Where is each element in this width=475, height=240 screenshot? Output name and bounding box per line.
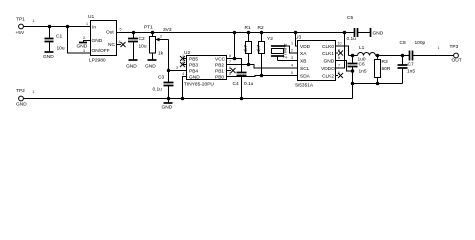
svg-text:PB2: PB2 bbox=[215, 62, 224, 68]
svg-text:TP3: TP3 bbox=[450, 44, 459, 50]
svg-text:1u0: 1u0 bbox=[358, 57, 366, 63]
svg-text:PB4: PB4 bbox=[189, 68, 198, 74]
svg-text:4: 4 bbox=[291, 64, 293, 68]
svg-text:C2: C2 bbox=[139, 36, 145, 42]
svg-text:2: 2 bbox=[291, 49, 293, 53]
svg-text:U1: U1 bbox=[88, 14, 94, 20]
svg-text:VDDO: VDDO bbox=[321, 66, 335, 72]
svg-text:GND: GND bbox=[126, 64, 137, 70]
svg-text:1: 1 bbox=[438, 46, 440, 50]
svg-text:U3: U3 bbox=[295, 35, 301, 41]
svg-text:C8: C8 bbox=[400, 40, 406, 46]
svg-text:100p: 100p bbox=[415, 40, 426, 46]
svg-text:C7: C7 bbox=[408, 62, 414, 68]
svg-text:1n5: 1n5 bbox=[359, 69, 367, 75]
svg-text:10u: 10u bbox=[57, 46, 65, 52]
svg-text:CLK0: CLK0 bbox=[322, 44, 334, 50]
svg-text:10: 10 bbox=[338, 42, 342, 46]
svg-text:PB1: PB1 bbox=[215, 68, 224, 74]
svg-text:4: 4 bbox=[182, 72, 184, 76]
svg-text:4k7: 4k7 bbox=[243, 44, 249, 52]
svg-text:1: 1 bbox=[33, 90, 35, 94]
svg-text:+5V: +5V bbox=[16, 30, 25, 36]
svg-text:GND: GND bbox=[324, 58, 335, 64]
svg-text:CLK1: CLK1 bbox=[322, 51, 334, 57]
svg-text:R2: R2 bbox=[258, 25, 264, 31]
svg-text:GND: GND bbox=[77, 44, 88, 50]
svg-text:2: 2 bbox=[160, 35, 162, 39]
svg-text:XA: XA bbox=[300, 51, 307, 57]
svg-text:CLK2: CLK2 bbox=[322, 73, 334, 79]
svg-text:7: 7 bbox=[229, 60, 231, 64]
svg-text:LP2980: LP2980 bbox=[89, 58, 106, 64]
svg-text:TINY85-20PU: TINY85-20PU bbox=[184, 82, 214, 88]
svg-text:TP2: TP2 bbox=[16, 88, 25, 94]
svg-text:3V3: 3V3 bbox=[163, 27, 172, 33]
svg-text:0.1u: 0.1u bbox=[244, 81, 254, 87]
svg-text:GND: GND bbox=[16, 102, 27, 108]
svg-text:Si5351A: Si5351A bbox=[295, 83, 314, 89]
svg-text:PT1: PT1 bbox=[144, 25, 153, 31]
svg-text:PB0: PB0 bbox=[215, 74, 224, 80]
svg-text:XB: XB bbox=[300, 58, 306, 64]
svg-text:C4: C4 bbox=[233, 81, 239, 87]
svg-text:3: 3 bbox=[83, 49, 85, 53]
svg-text:GND: GND bbox=[189, 74, 200, 80]
svg-text:VDD: VDD bbox=[300, 44, 311, 50]
svg-text:SCL: SCL bbox=[300, 66, 310, 72]
svg-text:VCC: VCC bbox=[215, 56, 226, 62]
svg-text:R1: R1 bbox=[245, 25, 251, 31]
svg-text:PB5: PB5 bbox=[189, 56, 198, 62]
svg-text:Y2: Y2 bbox=[267, 36, 273, 42]
svg-text:R3: R3 bbox=[382, 59, 388, 65]
svg-text:GND: GND bbox=[145, 64, 156, 70]
svg-text:1n5: 1n5 bbox=[407, 69, 415, 75]
svg-text:GND: GND bbox=[373, 31, 384, 37]
svg-text:NC: NC bbox=[108, 42, 115, 48]
svg-text:8: 8 bbox=[338, 56, 340, 60]
svg-text:3: 3 bbox=[176, 66, 178, 70]
svg-text:5: 5 bbox=[291, 71, 293, 75]
svg-text:50R: 50R bbox=[382, 66, 391, 72]
svg-text:0.1u: 0.1u bbox=[153, 87, 163, 93]
svg-text:GND: GND bbox=[43, 54, 54, 60]
svg-text:GND: GND bbox=[92, 38, 103, 44]
svg-text:C3: C3 bbox=[158, 75, 164, 81]
svg-text:1k: 1k bbox=[158, 51, 164, 57]
svg-text:0.1u: 0.1u bbox=[347, 36, 357, 42]
svg-text:3: 3 bbox=[291, 56, 293, 60]
svg-text:C1: C1 bbox=[56, 34, 62, 40]
svg-text:GND: GND bbox=[162, 105, 173, 111]
svg-text:2: 2 bbox=[83, 36, 85, 40]
svg-text:8: 8 bbox=[229, 54, 231, 58]
svg-text:ON/OFF: ON/OFF bbox=[92, 48, 110, 54]
svg-text:TP1: TP1 bbox=[16, 17, 25, 23]
svg-text:PB3: PB3 bbox=[189, 62, 198, 68]
svg-text:1: 1 bbox=[86, 22, 88, 26]
svg-text:OUT: OUT bbox=[452, 57, 462, 63]
svg-text:4k7: 4k7 bbox=[256, 44, 262, 52]
svg-text:27MHz: 27MHz bbox=[283, 43, 289, 59]
svg-text:L1: L1 bbox=[359, 45, 365, 51]
svg-text:10u: 10u bbox=[139, 44, 147, 50]
svg-text:C5: C5 bbox=[347, 15, 353, 21]
svg-text:Out: Out bbox=[106, 30, 114, 36]
svg-text:1: 1 bbox=[33, 19, 35, 23]
svg-text:SDA: SDA bbox=[300, 73, 311, 79]
svg-text:U2: U2 bbox=[184, 50, 190, 56]
svg-text:4: 4 bbox=[119, 40, 121, 44]
svg-text:5: 5 bbox=[120, 28, 122, 32]
svg-text:1: 1 bbox=[291, 42, 293, 46]
svg-text:7: 7 bbox=[338, 64, 340, 68]
svg-text:In: In bbox=[92, 25, 96, 31]
